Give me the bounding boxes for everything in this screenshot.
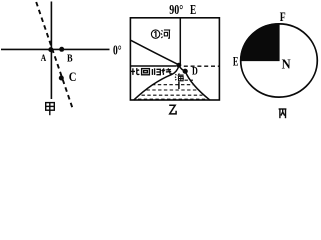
svg-text:E: E [190, 2, 196, 17]
svg-text:B: B [67, 53, 73, 64]
svg-text:C: C [69, 69, 77, 84]
90E meridian line inside map [179, 18, 181, 66]
river mouth junction dot [177, 63, 182, 68]
shaded quadrant sector [241, 24, 279, 61]
svg-text:F: F [280, 10, 286, 24]
compass circle (panel bing) [241, 24, 318, 97]
equator line 0 degrees (panel jia) [1, 48, 110, 50]
point B dot [59, 47, 64, 52]
tropic of cancer dashed segment [184, 65, 220, 67]
hai (sea) Chinese glyph [175, 73, 184, 80]
he (river) Chinese glyph [161, 30, 170, 38]
circled 1 marker [151, 30, 159, 38]
bei hui gui xian (Tropic of Cancer) glyphs [131, 68, 172, 75]
label jia (Chinese) under panel 1 [46, 103, 55, 116]
river curve no.1 [131, 40, 179, 65]
point A dot [48, 47, 53, 52]
coastline dome right side [179, 66, 210, 100]
point D dot [183, 69, 188, 74]
svg-text:0°: 0° [113, 42, 122, 57]
tropic of cancer solid segment [131, 65, 177, 67]
meridian vertical line (panel jia) [50, 2, 52, 100]
label yi (Chinese) under map [169, 105, 176, 114]
sea wave hatching [138, 80, 207, 99]
svg-text:D: D [192, 66, 198, 78]
svg-text:90°: 90° [169, 2, 183, 17]
point C dot [59, 76, 64, 81]
label bing (Chinese) under circle [279, 109, 287, 118]
map frame box (panel yi) [130, 18, 219, 100]
short channel line below sea label [178, 82, 180, 89]
svg-text:E: E [233, 53, 239, 68]
dashed declination line (panel jia) [36, 2, 72, 107]
coastline dome left side [134, 66, 179, 100]
svg-text:A: A [41, 54, 46, 64]
svg-text:N: N [282, 56, 291, 71]
